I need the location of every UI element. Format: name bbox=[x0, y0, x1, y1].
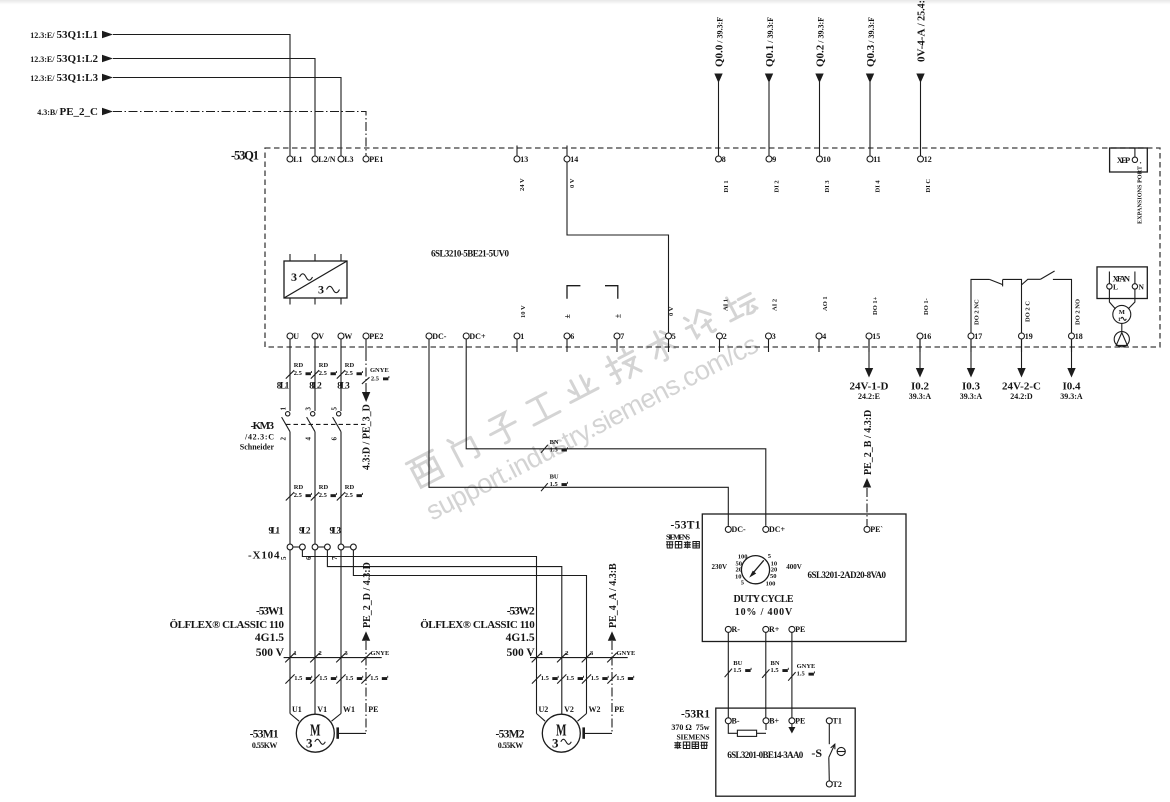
PE_2_B reference arrow bbox=[863, 478, 871, 488]
svg-text:9L1: 9L1 bbox=[269, 526, 281, 536]
svg-text:370 Ω 75w: 370 Ω 75w bbox=[671, 723, 709, 732]
svg-text:0 V: 0 V bbox=[668, 306, 675, 316]
svg-text:RD: RD bbox=[345, 484, 355, 491]
svg-text:1.5: 1.5 bbox=[345, 675, 354, 682]
svg-text:0 V: 0 V bbox=[569, 178, 576, 188]
svg-text:SIEMENS: SIEMENS bbox=[666, 533, 690, 542]
label neng-hao-mo-kuai bbox=[667, 542, 673, 548]
svg-text:-53R1: -53R1 bbox=[681, 709, 710, 721]
KM3 pole 2 bbox=[314, 352, 316, 411]
terminal 6 bottom row bbox=[564, 333, 570, 339]
X104 terminal 5 bbox=[287, 544, 293, 550]
svg-text:-KM3: -KM3 bbox=[251, 420, 275, 432]
svg-text:24.2:E: 24.2:E bbox=[858, 392, 880, 401]
relay NC contact 17-19 bbox=[971, 279, 989, 333]
svg-text:DC+: DC+ bbox=[469, 332, 486, 341]
wires 53T1 to 53R1 with markers bbox=[727, 632, 729, 717]
svg-text:-X104: -X104 bbox=[248, 550, 280, 562]
svg-text:6SL3201-2AD20-8VA0: 6SL3201-2AD20-8VA0 bbox=[808, 570, 887, 580]
svg-text:400V: 400V bbox=[786, 563, 802, 571]
thermal symbol bbox=[837, 747, 845, 755]
DC+ wire to 53T1 bbox=[466, 352, 766, 526]
svg-text:1.5: 1.5 bbox=[616, 675, 625, 682]
terminal PE1 bbox=[363, 156, 369, 162]
svg-text:2.5: 2.5 bbox=[319, 492, 328, 499]
svg-text:6SL3201-0BE14-3AA0: 6SL3201-0BE14-3AA0 bbox=[727, 750, 804, 760]
XEP expansion port bbox=[1110, 148, 1148, 172]
svg-text:39.3:A: 39.3:A bbox=[960, 392, 983, 401]
53R1 terminal T2 bbox=[826, 781, 832, 787]
svg-text:2.5: 2.5 bbox=[345, 370, 354, 377]
main drive box -53Q1 bbox=[265, 148, 1160, 347]
svg-text:8L3: 8L3 bbox=[337, 381, 350, 391]
53T1 terminal PE` bbox=[864, 526, 870, 532]
terminal 19 bottom row bbox=[1019, 333, 1025, 339]
svg-text:9L2: 9L2 bbox=[299, 526, 311, 536]
svg-text:RD: RD bbox=[294, 362, 304, 369]
svg-text:3: 3 bbox=[552, 736, 559, 751]
svg-text:I0.2: I0.2 bbox=[911, 381, 930, 393]
svg-text:5: 5 bbox=[331, 407, 339, 411]
svg-text:100: 100 bbox=[766, 581, 776, 588]
KM3 pole 1 bbox=[289, 352, 291, 411]
svg-text:9: 9 bbox=[772, 155, 776, 164]
svg-text:2.5: 2.5 bbox=[294, 370, 303, 377]
svg-text:3: 3 bbox=[318, 283, 324, 297]
terminal 13 bbox=[516, 146, 518, 157]
svg-text:I0.4: I0.4 bbox=[1062, 381, 1081, 393]
svg-text:R+: R+ bbox=[769, 625, 780, 634]
svg-text:B+: B+ bbox=[769, 717, 779, 726]
terminal 3 bottom row bbox=[766, 333, 772, 339]
svg-text:50: 50 bbox=[770, 573, 777, 580]
svg-text:AI 2: AI 2 bbox=[772, 299, 779, 311]
svg-text:1.5: 1.5 bbox=[319, 675, 328, 682]
X104 terminal 7 bbox=[338, 544, 344, 550]
conductor size marks 53W1 bbox=[285, 674, 294, 683]
svg-text:Q0.0 / 39.3:F: Q0.0 / 39.3:F bbox=[713, 17, 725, 67]
svg-text:17: 17 bbox=[974, 332, 982, 341]
svg-text:2: 2 bbox=[723, 332, 727, 341]
53T1 terminal R- bbox=[725, 626, 731, 632]
svg-text:L3: L3 bbox=[344, 155, 353, 164]
svg-text:AI 1: AI 1 bbox=[723, 299, 730, 311]
analog output bracket terminal 7 bbox=[605, 286, 618, 299]
KM3 pole 3 bbox=[340, 352, 342, 411]
svg-text:6SL3210-5BE21-5UV0: 6SL3210-5BE21-5UV0 bbox=[431, 249, 510, 259]
svg-text:1: 1 bbox=[280, 407, 288, 411]
svg-text:Q0.3 / 39.3:F: Q0.3 / 39.3:F bbox=[865, 17, 877, 67]
svg-text:L: L bbox=[1113, 283, 1118, 292]
svg-text:24 V: 24 V bbox=[519, 178, 526, 191]
svg-text:24V-2-C: 24V-2-C bbox=[1002, 381, 1041, 393]
wire 14 to 5 bbox=[567, 162, 669, 333]
53R1 terminal B+ bbox=[763, 718, 769, 724]
svg-text:-53W2: -53W2 bbox=[507, 606, 535, 618]
svg-text:2: 2 bbox=[565, 650, 568, 657]
svg-text:±: ± bbox=[563, 314, 572, 319]
wire markers RD 2.5mm2 row 1 bbox=[286, 370, 294, 378]
svg-text:U: U bbox=[293, 332, 299, 341]
terminal DC+ bottom row bbox=[463, 333, 469, 339]
output arrow I0.3 bbox=[970, 339, 972, 369]
resistor element bbox=[728, 724, 766, 734]
svg-text:BN: BN bbox=[771, 660, 780, 667]
terminal 2 bottom row bbox=[717, 333, 723, 339]
svg-text:U2: U2 bbox=[539, 705, 549, 714]
cable 53W2 bbox=[530, 657, 628, 659]
terminal PE2 bottom row bbox=[363, 333, 369, 339]
fan motor M1~ bbox=[1109, 289, 1115, 309]
svg-text:13: 13 bbox=[520, 155, 528, 164]
svg-text:-53M2: -53M2 bbox=[496, 729, 525, 741]
svg-text:1: 1 bbox=[540, 650, 543, 657]
svg-text:PE: PE bbox=[614, 705, 624, 714]
svg-text:39.3:A: 39.3:A bbox=[909, 392, 932, 401]
svg-text:DO 2 C: DO 2 C bbox=[1025, 301, 1032, 322]
svg-text:W: W bbox=[344, 332, 352, 341]
svg-text:DC+: DC+ bbox=[769, 525, 786, 534]
svg-text:12.3:E/ 53Q1:L3: 12.3:E/ 53Q1:L3 bbox=[30, 72, 98, 84]
svg-text:V2: V2 bbox=[564, 705, 574, 714]
motor 53M2 bbox=[542, 714, 580, 752]
svg-text:GNYE: GNYE bbox=[617, 650, 636, 657]
terminal DC- bottom row bbox=[426, 333, 432, 339]
svg-text:DO 2 NO: DO 2 NO bbox=[1075, 299, 1082, 325]
thermal switch -S bbox=[828, 724, 830, 744]
svg-text:3: 3 bbox=[772, 332, 776, 341]
svg-text:Q0.2 / 39.3:F: Q0.2 / 39.3:F bbox=[814, 17, 826, 67]
53R1 terminal T1 bbox=[826, 718, 832, 724]
relay NO contact 19-18 bbox=[1022, 279, 1041, 285]
53R1 terminal B- bbox=[725, 718, 731, 724]
terminal W bottom row bbox=[338, 333, 344, 339]
svg-text:Schneider: Schneider bbox=[240, 443, 275, 452]
53T1 terminal DC- bbox=[725, 526, 731, 532]
svg-text:5: 5 bbox=[672, 332, 676, 341]
svg-text:12.3:E/ 53Q1:L2: 12.3:E/ 53Q1:L2 bbox=[30, 53, 98, 65]
svg-text:RD: RD bbox=[319, 362, 329, 369]
svg-text:ÖLFLEX® CLASSIC 110: ÖLFLEX® CLASSIC 110 bbox=[170, 618, 285, 631]
svg-text:1.5: 1.5 bbox=[771, 667, 780, 674]
svg-text:1.5: 1.5 bbox=[550, 481, 559, 488]
svg-text:DO 1-: DO 1- bbox=[923, 298, 930, 315]
svg-text:B-: B- bbox=[732, 717, 740, 726]
svg-text:10% / 400V: 10% / 400V bbox=[735, 607, 793, 618]
svg-text:2.5: 2.5 bbox=[319, 370, 328, 377]
terminal 18 bottom row bbox=[1069, 333, 1075, 339]
top gray strip bbox=[0, 0, 1170, 5]
terminal U bottom row bbox=[287, 333, 293, 339]
svg-text:-53T1: -53T1 bbox=[671, 520, 701, 532]
analog output bracket terminal 6 bbox=[567, 286, 580, 299]
svg-text:3: 3 bbox=[306, 736, 313, 751]
svg-text:1.5: 1.5 bbox=[541, 675, 550, 682]
svg-text:1.5: 1.5 bbox=[591, 675, 600, 682]
svg-text:1.5: 1.5 bbox=[797, 671, 806, 678]
svg-text:DI C: DI C bbox=[925, 179, 932, 193]
svg-text:PE_2_B / 4.3:D: PE_2_B / 4.3:D bbox=[863, 410, 874, 475]
conductor size marks 53W2 bbox=[532, 674, 541, 683]
svg-text:RD: RD bbox=[294, 484, 304, 491]
svg-text:11: 11 bbox=[873, 155, 881, 164]
svg-text:PE: PE bbox=[795, 717, 805, 726]
svg-text:-S: -S bbox=[811, 746, 822, 760]
svg-text:3: 3 bbox=[305, 407, 313, 411]
svg-text:2: 2 bbox=[280, 437, 288, 441]
svg-text:I0.3: I0.3 bbox=[962, 381, 981, 393]
svg-text:PE`: PE` bbox=[870, 525, 883, 534]
terminal L3 bbox=[338, 156, 344, 162]
svg-text:DI 4: DI 4 bbox=[875, 180, 882, 193]
svg-text:U1: U1 bbox=[292, 705, 302, 714]
svg-text:4.3:D / PE_3_D: 4.3:D / PE_3_D bbox=[362, 404, 373, 470]
svg-text:W1: W1 bbox=[343, 705, 355, 714]
svg-text:18: 18 bbox=[1075, 332, 1083, 341]
svg-text:2.5: 2.5 bbox=[345, 492, 354, 499]
svg-text:1: 1 bbox=[294, 650, 297, 657]
svg-text:4G1.5: 4G1.5 bbox=[506, 632, 535, 644]
converter 3~/3~ symbol bbox=[284, 261, 347, 298]
PE_3_D down arrow bbox=[362, 392, 370, 402]
svg-text:AO 1: AO 1 bbox=[822, 296, 829, 311]
PE reference arrow PE_2_D / 4.3:D bbox=[362, 631, 370, 641]
output arrow I0.2 bbox=[919, 339, 921, 369]
svg-text:4: 4 bbox=[305, 437, 313, 441]
terminal V bottom row bbox=[312, 333, 318, 339]
svg-text:10: 10 bbox=[823, 155, 831, 164]
svg-text:0.55KW: 0.55KW bbox=[252, 741, 278, 750]
motor 53M2 PE frame connection bbox=[582, 727, 585, 738]
svg-text:GNYE: GNYE bbox=[797, 663, 816, 670]
terminal L1 bbox=[287, 156, 293, 162]
motor 1 phase wires bbox=[289, 550, 291, 714]
svg-text:R-: R- bbox=[732, 625, 741, 634]
duty cycle selector dial bbox=[741, 556, 769, 584]
53T1 terminal R+ bbox=[763, 626, 769, 632]
terminal 16 bottom row bbox=[917, 333, 923, 339]
svg-text:DI 3: DI 3 bbox=[824, 180, 831, 193]
terminal 5 bottom row bbox=[666, 333, 672, 339]
terminal L2/N bbox=[312, 156, 318, 162]
svg-text:12: 12 bbox=[924, 155, 932, 164]
svg-text:BN: BN bbox=[550, 439, 559, 446]
svg-text:V: V bbox=[318, 332, 324, 341]
svg-text:BU: BU bbox=[733, 660, 742, 667]
svg-text:39.3:A: 39.3:A bbox=[1060, 392, 1083, 401]
cable 53W1 bbox=[284, 657, 382, 659]
X104 terminal 6 bbox=[312, 544, 318, 550]
svg-text:19: 19 bbox=[1025, 332, 1033, 341]
svg-text:PE2: PE2 bbox=[369, 332, 383, 341]
svg-text:1: 1 bbox=[520, 332, 524, 341]
motor 53M1 bbox=[296, 714, 334, 752]
svg-text:1.5: 1.5 bbox=[733, 667, 742, 674]
svg-text:1: 1 bbox=[1118, 317, 1121, 323]
svg-text:5: 5 bbox=[280, 556, 288, 560]
svg-text:1.5: 1.5 bbox=[550, 447, 559, 454]
svg-text:1.5: 1.5 bbox=[566, 675, 575, 682]
watermark bbox=[402, 284, 779, 526]
svg-text:15: 15 bbox=[872, 332, 880, 341]
svg-text:W2: W2 bbox=[589, 705, 601, 714]
svg-text:N: N bbox=[1139, 283, 1145, 292]
svg-text:PE_4_A / 4.3:B: PE_4_A / 4.3:B bbox=[608, 563, 619, 628]
XFAN fan supply box bbox=[1097, 267, 1147, 299]
svg-text:GNYE: GNYE bbox=[370, 367, 389, 374]
svg-text:1.5: 1.5 bbox=[370, 675, 379, 682]
braking module -53T1 bbox=[702, 514, 906, 642]
svg-text:4: 4 bbox=[822, 332, 826, 341]
svg-text:24V-1-D: 24V-1-D bbox=[850, 381, 889, 393]
svg-text:DI 2: DI 2 bbox=[774, 180, 781, 192]
svg-text:12.3:E/ 53Q1:L1: 12.3:E/ 53Q1:L1 bbox=[30, 29, 98, 41]
svg-text:0V-4-A / 25.4:E: 0V-4-A / 25.4:E bbox=[915, 0, 927, 62]
svg-text:-53M1: -53M1 bbox=[250, 729, 279, 741]
svg-text:DC-: DC- bbox=[732, 525, 747, 534]
svg-text:SIEMENS: SIEMENS bbox=[677, 732, 710, 741]
svg-text:EXPANSIONS PORT: EXPANSIONS PORT bbox=[1137, 165, 1144, 224]
output arrow I0.4 bbox=[1071, 339, 1073, 369]
terminal 17 bottom row bbox=[968, 333, 974, 339]
svg-text:M: M bbox=[1119, 309, 1125, 316]
svg-text:2: 2 bbox=[319, 650, 322, 657]
svg-text:DC-: DC- bbox=[432, 332, 447, 341]
motor 53M1 PE frame connection bbox=[336, 727, 339, 738]
wire markers RD 2.5mm2 row 2 bbox=[286, 492, 294, 500]
terminal 7 bottom row bbox=[614, 333, 620, 339]
svg-text:ÖLFLEX® CLASSIC 110: ÖLFLEX® CLASSIC 110 bbox=[420, 618, 535, 631]
svg-text:.: . bbox=[1140, 156, 1142, 166]
svg-text:230V: 230V bbox=[711, 563, 727, 571]
svg-text:500 V: 500 V bbox=[256, 647, 285, 659]
svg-text:DI 1: DI 1 bbox=[723, 180, 730, 192]
branch wires to motor 2 bbox=[302, 550, 536, 714]
svg-text:500 V: 500 V bbox=[506, 647, 535, 659]
svg-text:DO 2 NC: DO 2 NC bbox=[974, 299, 981, 325]
svg-text:2.5: 2.5 bbox=[371, 375, 380, 382]
svg-text:T1: T1 bbox=[833, 717, 842, 726]
svg-text:PE1: PE1 bbox=[369, 155, 383, 164]
svg-text:RD: RD bbox=[345, 362, 355, 369]
wire marker GNYE 2.5mm2 PE_3_D bbox=[365, 352, 367, 392]
svg-text:8: 8 bbox=[722, 155, 726, 164]
53T1 terminal DC+ bbox=[763, 526, 769, 532]
terminal 1 bottom row bbox=[514, 333, 520, 339]
braking resistor -53R1 box bbox=[716, 708, 855, 796]
svg-text:V1: V1 bbox=[317, 705, 327, 714]
svg-text:4G1.5: 4G1.5 bbox=[255, 632, 284, 644]
svg-text:16: 16 bbox=[923, 332, 931, 341]
output arrow 24V-2-C bbox=[1021, 339, 1023, 369]
svg-text:8L1: 8L1 bbox=[277, 381, 290, 391]
svg-text:DUTY CYCLE: DUTY CYCLE bbox=[734, 594, 794, 605]
svg-text:±: ± bbox=[614, 313, 623, 318]
svg-text:24.2:D: 24.2:D bbox=[1010, 392, 1033, 401]
53T1 terminal PE bbox=[789, 626, 795, 632]
svg-text:PE: PE bbox=[795, 625, 805, 634]
svg-text:PE_2_D / 4.3:D: PE_2_D / 4.3:D bbox=[362, 562, 373, 628]
fan symbol bbox=[1121, 323, 1123, 331]
svg-text:9L3: 9L3 bbox=[330, 526, 342, 536]
svg-text:PE: PE bbox=[368, 705, 378, 714]
svg-text:Q0.1 / 39.3:F: Q0.1 / 39.3:F bbox=[764, 17, 776, 67]
svg-text:-53W1: -53W1 bbox=[256, 606, 284, 618]
XFAN terminal L bbox=[1107, 284, 1112, 289]
53R1 terminal PE bbox=[789, 718, 795, 724]
svg-text:3: 3 bbox=[291, 270, 297, 284]
XFAN terminal N bbox=[1132, 284, 1137, 289]
terminal 4 bottom row bbox=[816, 333, 822, 339]
output arrow 24V-1-D bbox=[868, 339, 870, 369]
svg-text:-53Q1: -53Q1 bbox=[231, 149, 259, 163]
svg-text:0.55KW: 0.55KW bbox=[498, 741, 524, 750]
svg-text:10 V: 10 V bbox=[520, 305, 527, 318]
svg-text:7: 7 bbox=[620, 332, 624, 341]
svg-text:GNYE: GNYE bbox=[371, 650, 390, 657]
svg-text:8L2: 8L2 bbox=[309, 381, 322, 391]
PE reference arrow PE_4_A / 4.3:B bbox=[608, 631, 616, 641]
terminal 14 bbox=[566, 146, 568, 157]
svg-text:BU: BU bbox=[550, 474, 559, 481]
svg-text:6: 6 bbox=[570, 332, 574, 341]
svg-text:4.3:B/ PE_2_C: 4.3:B/ PE_2_C bbox=[37, 106, 98, 118]
svg-text:XEP: XEP bbox=[1117, 155, 1131, 165]
svg-text:DO 1+: DO 1+ bbox=[872, 296, 879, 315]
label zhi-dong-dian-zu bbox=[675, 742, 681, 749]
KM3 linkage dashed bbox=[286, 423, 366, 425]
svg-text:14: 14 bbox=[570, 155, 578, 164]
svg-text:L1: L1 bbox=[293, 155, 302, 164]
DC- wire to 53T1 bbox=[429, 352, 728, 526]
svg-text:/42.3:C: /42.3:C bbox=[244, 433, 274, 442]
svg-text:T2: T2 bbox=[833, 780, 842, 789]
svg-text:6: 6 bbox=[331, 437, 339, 441]
terminal 15 bottom row bbox=[866, 333, 872, 339]
svg-text:1.5: 1.5 bbox=[294, 675, 303, 682]
svg-text:L2/N: L2/N bbox=[318, 155, 336, 164]
svg-text:2.5: 2.5 bbox=[294, 492, 303, 499]
svg-text:RD: RD bbox=[319, 484, 329, 491]
